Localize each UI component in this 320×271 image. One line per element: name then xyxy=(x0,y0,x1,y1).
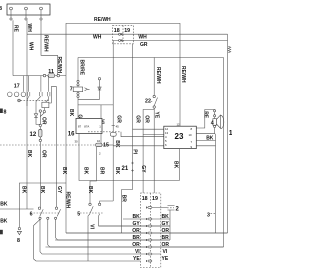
svg-text:RE/WH: RE/WH xyxy=(43,35,49,52)
svg-text:RE: RE xyxy=(202,111,208,119)
svg-text:VI: VI xyxy=(163,249,168,255)
svg-text:YE: YE xyxy=(133,256,140,262)
svg-text:23: 23 xyxy=(175,132,184,141)
svg-text:87: 87 xyxy=(78,124,82,128)
svg-text:12: 12 xyxy=(177,123,181,127)
svg-text:RE/WH: RE/WH xyxy=(94,17,111,23)
svg-text:12: 12 xyxy=(30,132,37,138)
svg-text:3: 3 xyxy=(207,212,210,218)
svg-text:RE/WH: RE/WH xyxy=(56,57,62,74)
svg-text:WH: WH xyxy=(28,42,34,51)
svg-text:RE/WH: RE/WH xyxy=(180,66,186,83)
svg-text:WH: WH xyxy=(138,34,147,40)
svg-text:16: 16 xyxy=(68,132,75,138)
svg-text:87A: 87A xyxy=(84,124,89,128)
svg-text:RE/WH: RE/WH xyxy=(65,192,71,209)
svg-text:7: 7 xyxy=(70,87,73,93)
svg-text:OR: OR xyxy=(144,115,150,123)
svg-text:BR: BR xyxy=(120,195,126,203)
svg-text:GY: GY xyxy=(132,221,140,227)
svg-text:18: 18 xyxy=(142,196,148,202)
svg-text:BK: BK xyxy=(20,186,26,194)
svg-text:GY: GY xyxy=(140,165,146,173)
svg-text:YE: YE xyxy=(153,112,159,119)
svg-text:GR: GR xyxy=(115,115,121,123)
svg-text:GR: GR xyxy=(140,42,148,48)
svg-text:1: 1 xyxy=(229,130,232,137)
svg-text:BK: BK xyxy=(0,201,8,207)
svg-text:YE: YE xyxy=(162,256,169,262)
svg-text:BR: BR xyxy=(132,235,140,241)
svg-text:OR: OR xyxy=(41,117,47,125)
svg-text:BR: BR xyxy=(99,167,105,175)
svg-text:BK: BK xyxy=(172,161,178,169)
svg-text:GY: GY xyxy=(56,186,62,194)
svg-text:22: 22 xyxy=(145,99,151,105)
svg-text:RE: RE xyxy=(12,25,18,33)
svg-text:21: 21 xyxy=(122,166,129,172)
svg-text:OR: OR xyxy=(162,228,170,234)
svg-text:17: 17 xyxy=(14,83,20,89)
svg-text:BK: BK xyxy=(83,167,89,175)
svg-text:OR: OR xyxy=(132,242,140,248)
svg-text:BK: BK xyxy=(87,186,93,194)
svg-text:45: 45 xyxy=(116,124,120,128)
svg-text:OR: OR xyxy=(162,242,170,248)
svg-text:WH: WH xyxy=(26,24,32,33)
svg-text:15: 15 xyxy=(103,143,109,149)
svg-text:19: 19 xyxy=(152,196,158,202)
svg-text:10: 10 xyxy=(189,133,193,137)
svg-text:BR: BR xyxy=(162,235,170,241)
svg-text:4: 4 xyxy=(211,120,214,126)
svg-text:8: 8 xyxy=(0,6,2,12)
svg-text:PI: PI xyxy=(131,149,137,154)
svg-text:BK: BK xyxy=(114,167,120,175)
svg-text:VI: VI xyxy=(89,224,95,229)
svg-text:BK: BK xyxy=(132,214,140,220)
svg-text:30: 30 xyxy=(75,139,79,143)
svg-text:5: 5 xyxy=(77,211,80,217)
svg-text:BK: BK xyxy=(61,167,67,175)
svg-text:OR: OR xyxy=(40,150,46,158)
svg-text:18: 18 xyxy=(114,28,120,34)
svg-text:8: 8 xyxy=(4,110,7,116)
svg-text:10: 10 xyxy=(97,139,101,143)
svg-text:RE/WH: RE/WH xyxy=(155,67,161,84)
svg-text:VI: VI xyxy=(135,249,140,255)
svg-text:OR: OR xyxy=(132,228,140,234)
svg-text:BK: BK xyxy=(39,186,45,194)
svg-text:19: 19 xyxy=(124,28,130,34)
svg-text:11: 11 xyxy=(48,69,54,75)
svg-text:WH: WH xyxy=(93,35,102,41)
svg-text:GR: GR xyxy=(134,115,140,123)
svg-text:BK: BK xyxy=(162,214,170,220)
svg-text:BK: BK xyxy=(26,150,32,158)
svg-text:BR/RE: BR/RE xyxy=(78,60,84,76)
svg-text:BK: BK xyxy=(114,140,120,148)
svg-text:BK: BK xyxy=(0,219,8,225)
svg-text:GY: GY xyxy=(162,221,170,227)
svg-text:8: 8 xyxy=(17,238,20,244)
svg-text:BK: BK xyxy=(68,109,74,117)
svg-text:6: 6 xyxy=(30,211,33,217)
